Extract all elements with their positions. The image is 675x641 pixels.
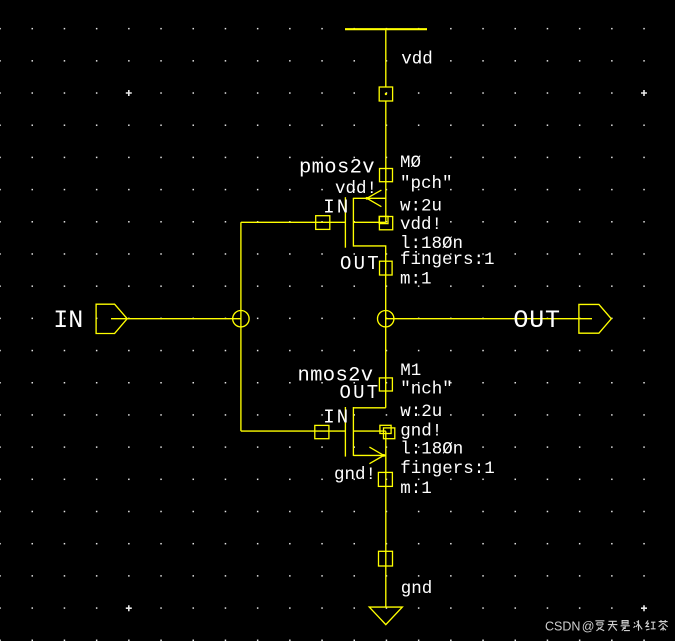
pin square on vdd net: [379, 87, 392, 101]
input node junction circle: [233, 311, 249, 327]
svg-text:fingers:1: fingers:1: [400, 459, 495, 479]
svg-text:pmos2v: pmos2v: [299, 157, 375, 180]
wire input vertical bus: [240, 222, 242, 431]
wire IN to pmos gate: [241, 221, 346, 223]
pin square M0 drain net OUT: [380, 261, 393, 275]
svg-text:vdd: vdd: [401, 49, 433, 69]
wire vdd stem upper: [385, 29, 387, 87]
port OUT pin pentagon: [579, 304, 611, 333]
wire IN net: [111, 318, 241, 320]
svg-text:fingers:1: fingers:1: [400, 250, 495, 270]
wire gnd net from bulk to ground: [385, 431, 387, 607]
svg-text:vdd!: vdd!: [400, 215, 442, 235]
svg-text:OUT: OUT: [513, 306, 560, 335]
svg-text:MØ: MØ: [400, 153, 421, 173]
wire vdd net to M0: [385, 101, 387, 222]
svg-text:CSDN: CSDN: [545, 619, 580, 633]
output node junction circle: [378, 311, 394, 327]
svg-text:@: @: [582, 619, 595, 633]
svg-text:gnd!: gnd!: [334, 465, 376, 485]
pin square gnd net upper: [378, 472, 392, 486]
svg-text:l:18Øn: l:18Øn: [400, 440, 463, 460]
nmos M1 drain lead: [353, 407, 385, 409]
svg-text:w:2u: w:2u: [400, 402, 442, 422]
svg-text:IN: IN: [323, 196, 350, 218]
nmos M1 gate bar: [344, 407, 346, 457]
pmos M0 source lead: [353, 197, 385, 199]
pmos M0 source arrow: [366, 190, 382, 207]
nmos M1 channel bar: [352, 407, 354, 456]
wire OUT net: [386, 318, 592, 320]
pmos M0 drain lead and wire to output node: [353, 246, 385, 408]
watermark hanzi strokes: [595, 620, 667, 631]
nmos M1 source arrow: [369, 447, 385, 464]
svg-text:gnd: gnd: [401, 579, 433, 599]
svg-text:OUT: OUT: [340, 382, 381, 404]
pin square M1 drain net: [379, 378, 392, 391]
svg-text:OUT: OUT: [340, 253, 381, 275]
svg-text:"pch": "pch": [400, 174, 453, 194]
svg-text:m:1: m:1: [400, 270, 432, 290]
wire IN to nmos gate: [241, 430, 346, 432]
ground symbol triangle: [369, 607, 402, 625]
svg-text:m:1: m:1: [400, 479, 432, 499]
port IN pin pentagon: [96, 304, 127, 333]
pmos M0 gate pin square: [316, 216, 330, 230]
pmos M0 bulk pin squares: [379, 216, 392, 229]
nmos M1 gate pin square: [315, 425, 329, 438]
power rail vdd bar symbol: [345, 28, 427, 30]
pmos M0 gate bar: [344, 197, 346, 248]
nmos M1 bulk pin squares: [380, 425, 395, 438]
pin square M0 source net: [380, 169, 393, 182]
svg-text:M1: M1: [400, 361, 421, 381]
pin square gnd net lower: [379, 551, 393, 566]
pmos M0 bulk lead: [353, 221, 385, 223]
svg-text:w:2u: w:2u: [400, 196, 442, 216]
svg-text:IN: IN: [53, 306, 83, 335]
svg-text:"nch": "nch": [400, 379, 453, 399]
nmos M1 source lead: [353, 454, 385, 456]
pmos M0 channel bar: [352, 198, 354, 247]
svg-text:IN: IN: [323, 407, 350, 429]
nmos M1 bulk lead: [353, 430, 385, 432]
